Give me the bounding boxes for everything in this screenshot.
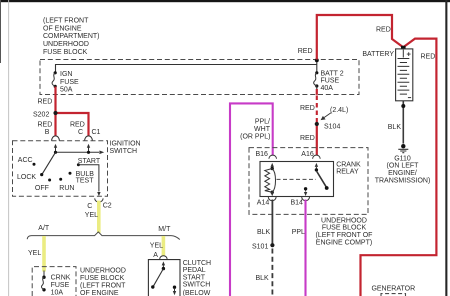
svg-text:B16: B16: [256, 151, 269, 158]
wire BLK from A14: [271, 200, 273, 245]
wire RED battery feed top: [317, 15, 437, 296]
svg-text:(BELOW: (BELOW: [183, 290, 211, 296]
svg-text:FUSE BLOCK: FUSE BLOCK: [322, 225, 367, 232]
svg-text:SWITCH: SWITCH: [110, 148, 138, 155]
svg-text:UNDERHOOD: UNDERHOOD: [43, 41, 89, 48]
connector arc B16: [269, 155, 277, 159]
svg-text:A/T: A/T: [38, 225, 50, 232]
battery BATTERY: [362, 46, 412, 101]
svg-text:BATTERY: BATTERY: [362, 51, 394, 58]
note (LEFT FRONT OF ENGINE COMPARTMENT) UNDERHOOD FUSE BLOCK: [43, 18, 100, 56]
position ACC: [18, 157, 36, 166]
svg-text:UNDERHOOD: UNDERHOOD: [80, 268, 126, 275]
wire RED to crank relay: [316, 126, 318, 156]
pin arrow B16: [271, 163, 274, 168]
svg-text:A: A: [153, 252, 158, 259]
svg-text:CLUTCH: CLUTCH: [183, 260, 211, 267]
position START: [77, 158, 101, 166]
connector arc A16: [313, 155, 321, 159]
clutch switch contacts: [151, 267, 176, 295]
wire RED from IGN fuse to S202 and connectors: [56, 87, 89, 136]
svg-text:ENGINE COMPT): ENGINE COMPT): [316, 239, 372, 246]
svg-text:FUSE BLOCK: FUSE BLOCK: [80, 275, 125, 282]
svg-text:LOCK: LOCK: [17, 174, 36, 181]
svg-text:C1: C1: [92, 129, 101, 136]
svg-text:C: C: [78, 129, 83, 136]
ignition switch dashed box: [13, 141, 108, 196]
svg-text:40A: 40A: [321, 85, 334, 92]
svg-text:50A: 50A: [60, 86, 73, 93]
left top edge fragment: [0, 0, 1, 63]
connector arc A14: [268, 197, 276, 201]
relay internal dashed link: [277, 178, 317, 180]
pin arrow A: [162, 261, 165, 268]
connector arc pin C: [85, 136, 93, 141]
svg-text:RED: RED: [298, 48, 313, 55]
wire YEL A/T branch: [42, 236, 46, 272]
svg-text:ENGINE/: ENGINE/: [388, 170, 417, 177]
node S101: [270, 243, 274, 247]
svg-text:(LEFT FRONT OF: (LEFT FRONT OF: [316, 232, 373, 239]
node junction on red feed: [315, 58, 319, 62]
relay switch: [304, 168, 329, 196]
wire PPL/WHT routing: [230, 103, 273, 296]
svg-text:BLK: BLK: [256, 275, 270, 282]
position BULB TEST: [69, 171, 95, 185]
note UNDERHOOD FUSE BLOCK (LEFT FRONT OF ENGINE COMPT): [316, 217, 373, 246]
svg-text:FUSE: FUSE: [321, 78, 340, 85]
svg-text:BLK: BLK: [257, 229, 271, 236]
svg-text:C2: C2: [103, 203, 112, 210]
note UNDERHOOD FUSE BLOCK (LEFT FRONT OF ENGINE: [80, 268, 126, 296]
connector arc C2: [95, 198, 103, 202]
generator GENERATOR: [371, 286, 415, 296]
svg-text:10A: 10A: [51, 289, 64, 296]
wire BLK dashed below S101: [271, 249, 273, 296]
svg-text:RED: RED: [300, 105, 315, 112]
svg-text:UNDERHOOD: UNDERHOOD: [321, 217, 367, 224]
switch arm: [40, 152, 55, 176]
svg-text:S104: S104: [324, 124, 340, 131]
right window border: [445, 0, 447, 296]
svg-text:IGN: IGN: [60, 71, 72, 78]
svg-text:OF ENGINE: OF ENGINE: [80, 290, 119, 296]
svg-text:C: C: [87, 203, 92, 210]
svg-text:OFF: OFF: [35, 185, 49, 192]
svg-text:(2.4L): (2.4L): [330, 107, 348, 114]
svg-text:START: START: [183, 274, 206, 281]
svg-text:RUN: RUN: [59, 185, 74, 192]
red wire solid below fuse: [316, 89, 318, 95]
svg-text:OF ENGINE: OF ENGINE: [43, 25, 82, 32]
wire YEL M/T branch: [162, 236, 166, 256]
pin arrow C: [87, 144, 90, 153]
position OFF: [35, 179, 51, 192]
svg-text:BLK: BLK: [388, 124, 402, 131]
underhood fuse block dashed box: [40, 60, 359, 95]
svg-text:RED: RED: [300, 135, 315, 142]
wire BLK battery to ground: [402, 101, 404, 144]
svg-text:GENERATOR: GENERATOR: [371, 286, 415, 293]
crank fuse dashed box: [32, 267, 76, 296]
svg-text:(LEFT FRONT: (LEFT FRONT: [80, 283, 126, 290]
connector arc B14: [302, 197, 310, 201]
svg-text:CRNK: CRNK: [51, 274, 71, 281]
fuse BATT 2 40A: [314, 70, 344, 91]
left faint panel line: [7, 0, 10, 296]
svg-text:(OR PPL): (OR PPL): [240, 134, 270, 141]
svg-text:B14: B14: [291, 199, 304, 206]
fuse IGN 50A: [52, 71, 79, 93]
svg-text:FUSE: FUSE: [51, 282, 70, 289]
wire RED dashed 2.4L segment: [316, 96, 318, 123]
svg-text:START: START: [78, 158, 101, 165]
svg-text:RED: RED: [70, 122, 85, 129]
svg-text:YEL: YEL: [85, 212, 98, 219]
note CLUTCH PEDAL START SWITCH (BELOW: [183, 260, 211, 296]
node S104: [315, 122, 319, 126]
svg-text:G110: G110: [394, 155, 411, 162]
position RUN: [59, 178, 74, 192]
pin arrow A16: [315, 163, 318, 169]
wire PPL from B14: [304, 200, 306, 296]
svg-text:RED: RED: [376, 26, 391, 33]
svg-text:WHT: WHT: [254, 126, 271, 133]
svg-text:S202: S202: [33, 112, 49, 119]
svg-text:B: B: [45, 129, 50, 136]
svg-text:PPL: PPL: [292, 229, 305, 236]
svg-text:M/T: M/T: [158, 226, 171, 233]
note (2.4L): [321, 107, 349, 120]
svg-text:FUSE BLOCK: FUSE BLOCK: [43, 49, 88, 56]
switch common rail: [54, 151, 104, 155]
svg-text:A14: A14: [257, 199, 270, 206]
pin arrow B: [54, 144, 57, 153]
svg-text:S101: S101: [252, 243, 268, 250]
relay box: [260, 162, 334, 197]
svg-text:(ON LEFT: (ON LEFT: [387, 163, 420, 170]
start output wire: [78, 165, 100, 197]
ground G110: [375, 144, 431, 184]
svg-text:A16: A16: [301, 151, 314, 158]
svg-text:CRANK: CRANK: [336, 161, 361, 168]
connector arc pin B: [52, 136, 60, 141]
svg-text:RED: RED: [421, 54, 436, 61]
svg-text:(LEFT FRONT: (LEFT FRONT: [43, 18, 89, 25]
wire YEL from ignition switch: [97, 201, 101, 233]
svg-text:FUSE: FUSE: [60, 79, 79, 86]
connector arc pin A clutch switch: [160, 256, 168, 260]
svg-text:RED: RED: [38, 122, 53, 129]
svg-text:BATT 2: BATT 2: [321, 70, 344, 77]
svg-text:TRANSMISSION): TRANSMISSION): [375, 177, 431, 184]
svg-text:IGNITION: IGNITION: [110, 141, 141, 148]
svg-text:PPL/: PPL/: [255, 118, 270, 125]
svg-text:YEL: YEL: [150, 243, 163, 250]
A/T M/T split bracket: [27, 232, 180, 240]
svg-text:SWITCH: SWITCH: [183, 282, 211, 289]
svg-text:PEDAL: PEDAL: [183, 267, 206, 274]
fuse CRNK 10A: [42, 271, 71, 296]
relay coil: [265, 167, 276, 194]
clutch pedal start switch box: [148, 260, 180, 296]
svg-text:ACC: ACC: [18, 157, 33, 164]
crank relay dashed enclosure: [249, 148, 368, 215]
svg-text:YEL: YEL: [28, 250, 41, 257]
svg-text:RED: RED: [38, 98, 53, 105]
svg-text:RELAY: RELAY: [336, 169, 359, 176]
svg-text:TEST: TEST: [76, 178, 95, 185]
svg-text:COMPARTMENT): COMPARTMENT): [43, 33, 100, 40]
top window border: [0, 0, 450, 2]
node S202: [53, 111, 57, 115]
wire bus inside fuse block: [56, 60, 317, 72]
coil output arrow to A14: [271, 192, 274, 196]
